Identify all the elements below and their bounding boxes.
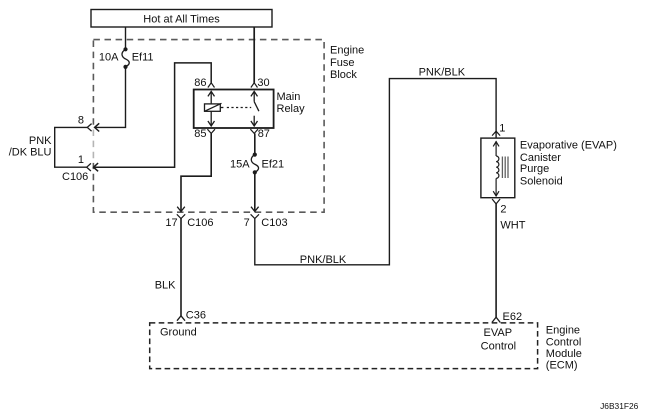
svg-text:Evaporative (EVAP): Evaporative (EVAP) <box>520 140 617 152</box>
svg-text:/DK BLU: /DK BLU <box>9 147 52 159</box>
svg-text:C106: C106 <box>62 171 88 183</box>
label: Engine Fuse Block <box>330 44 364 81</box>
svg-text:BLK: BLK <box>155 279 176 291</box>
svg-text:Relay: Relay <box>277 103 306 115</box>
relay U: Main Relay box <box>194 90 274 129</box>
connector E62 splay into ECM <box>492 317 500 322</box>
svg-text:Ef11: Ef11 <box>132 51 154 63</box>
relay switch branch (pin 30 to 87) <box>251 91 259 126</box>
svg-text:7: 7 <box>244 217 250 229</box>
svg-text:Fuse: Fuse <box>330 57 354 69</box>
svg-text:PNK/BLK: PNK/BLK <box>300 254 347 266</box>
wire: relay pin 87 down to fuse Ef21 <box>254 133 256 154</box>
svg-text:PNK: PNK <box>29 135 52 147</box>
label: PNK /DK BLU wire colour <box>9 135 52 159</box>
relay pin 85 chevron <box>207 129 215 133</box>
svg-text:17: 17 <box>165 217 177 229</box>
chevron below C103 pin 7 <box>251 214 259 218</box>
relay pin 86 chevron <box>208 83 215 88</box>
solenoid pin 1 chevron <box>492 131 500 135</box>
wire: into solenoid box top <box>495 131 497 138</box>
svg-text:30: 30 <box>257 77 269 89</box>
wire: fuse Ef21 down to C103 pin 7 <box>254 172 256 211</box>
wire: BLK ground wire down to C36 <box>180 219 182 316</box>
svg-text:Control: Control <box>481 340 516 352</box>
relay coil branch (pin 86 to 85) <box>205 91 222 126</box>
wire: Hot bus down to fuse Ef11 <box>125 27 127 49</box>
svg-text:10A: 10A <box>99 51 119 63</box>
Engine Fuse Block dashed boundary box <box>93 40 324 213</box>
fuse Ef11 (10A) <box>122 47 129 69</box>
chevron below C106 pin 17 <box>177 214 185 218</box>
wire: WHT from solenoid pin 2 down to ECM pin E62 <box>495 204 497 317</box>
svg-text:Main: Main <box>277 91 301 103</box>
relay pin 87 chevron <box>250 129 258 133</box>
svg-text:Module: Module <box>546 348 582 360</box>
label: Main Relay <box>277 91 306 115</box>
connector C106 pin 1 (arrow + chevron) <box>87 163 98 171</box>
svg-text:E62: E62 <box>503 311 523 323</box>
svg-text:C36: C36 <box>186 310 206 322</box>
svg-text:Control: Control <box>546 336 581 348</box>
svg-text:Purge: Purge <box>520 163 549 175</box>
svg-text:EVAP: EVAP <box>484 327 513 339</box>
wire: relay pin 85 down, left, down to C106 pin 17 <box>181 133 211 211</box>
relay pin 30 chevron <box>251 83 258 88</box>
ECM dashed boundary box <box>150 323 538 369</box>
solenoid core bars <box>502 157 508 179</box>
svg-text:15A: 15A <box>230 159 250 171</box>
power source box: Hot at All Times <box>91 10 272 28</box>
svg-text:Ef21: Ef21 <box>262 159 285 171</box>
wire: PNK/BLK from C103 pin 7 down, right, up and over to solenoid pin 1 <box>255 79 496 265</box>
svg-text:85: 85 <box>194 128 206 140</box>
wire: PNK/DK BLU loop outside fuse block <box>55 127 88 167</box>
svg-text:1: 1 <box>78 154 84 166</box>
label: EVAP Control (inside ECM box) <box>481 327 516 353</box>
wire: C106 pin 1 right, up and over to relay pin 86 <box>94 63 212 167</box>
svg-text:1: 1 <box>499 123 505 135</box>
svg-text:2: 2 <box>500 203 506 215</box>
connector C106 pin 8 (arrow + chevron) <box>87 123 99 131</box>
label: Evaporative (EVAP) Canister Purge Solenoid <box>520 140 617 188</box>
svg-text:87: 87 <box>258 128 270 140</box>
solenoid L1: EVAP canister purge solenoid box <box>481 138 515 198</box>
solenoid pin 2 chevron <box>492 199 500 204</box>
svg-text:Engine: Engine <box>546 325 580 337</box>
svg-text:Block: Block <box>330 69 357 81</box>
svg-text:8: 8 <box>78 115 84 127</box>
fuse Ef21 (15A) <box>251 153 258 175</box>
svg-text:Hot at All Times: Hot at All Times <box>143 13 220 25</box>
arrowhead at C103 pin 7 crossing <box>251 207 259 212</box>
svg-text:Solenoid: Solenoid <box>520 176 563 188</box>
svg-text:Canister: Canister <box>520 152 561 164</box>
relay actuation dashed link <box>220 107 251 109</box>
svg-text:PNK/BLK: PNK/BLK <box>419 67 466 79</box>
svg-text:86: 86 <box>194 77 206 89</box>
svg-text:WHT: WHT <box>500 220 525 232</box>
svg-text:C103: C103 <box>261 217 287 229</box>
svg-text:(ECM): (ECM) <box>546 360 578 372</box>
label: Engine Control Module (ECM) <box>546 325 582 372</box>
svg-text:C106: C106 <box>187 217 213 229</box>
wire: fuse Ef11 down then left to C106 pin 8 <box>95 67 126 128</box>
wire: Hot bus down to relay pin 30 <box>253 27 255 83</box>
svg-text:J6B31F26: J6B31F26 <box>600 401 639 411</box>
svg-text:Ground: Ground <box>160 326 197 338</box>
svg-text:Engine: Engine <box>330 44 364 56</box>
solenoid coil symbol <box>493 141 499 196</box>
arrowhead at C106 pin 17 crossing <box>177 207 185 212</box>
connector C36 splay into ground <box>177 316 185 321</box>
